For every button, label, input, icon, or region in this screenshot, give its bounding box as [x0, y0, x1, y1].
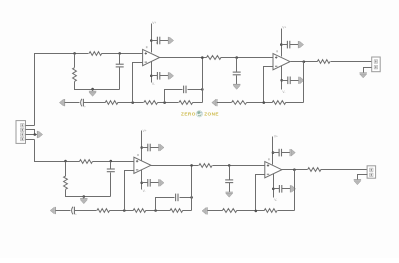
- label U1 pin8 speck: [156, 42, 158, 44]
- wire to C12: [142, 147, 148, 149]
- wire R4 to R5: [158, 102, 179, 104]
- wire U2 V- pin: [281, 66, 283, 90]
- wire C12 to ground: [151, 147, 159, 149]
- ground arrow bottom input loop: [80, 199, 87, 204]
- wire to C1 top: [119, 54, 121, 65]
- node A bottom: [64, 160, 67, 163]
- junction U1 output feedback: [201, 56, 204, 59]
- wire ground stub bottom loop: [83, 197, 85, 199]
- ground arrow U4 V-: [290, 185, 295, 192]
- label U1 V-: [152, 82, 155, 86]
- svg-text:V-: V-: [274, 198, 277, 202]
- svg-text:V-: V-: [152, 82, 155, 86]
- wire U4 output: [282, 169, 308, 171]
- svg-text:V+: V+: [143, 129, 147, 133]
- wire R3 to R4: [118, 102, 144, 104]
- resistor R4 (top feedback): [144, 101, 158, 105]
- junction U1 V+ decoupling: [150, 39, 153, 42]
- resistor R11 (bottom input shunt): [64, 176, 68, 189]
- resistor R5 (top feedback): [179, 101, 193, 105]
- wire top input loop bottom: [75, 82, 120, 90]
- junction C11-leg: [190, 196, 193, 199]
- resistor R15 (bottom coupling): [199, 164, 212, 168]
- capacitor C11 (bottom feedback parallel): [176, 194, 178, 202]
- resistor R14 (bottom feedback): [170, 209, 183, 213]
- ground arrow bottom interstage: [226, 192, 233, 197]
- junction U2 V- decoupling: [280, 79, 283, 82]
- wire feedback tap to U3 - input: [125, 171, 134, 211]
- ground arrow at J3: [354, 180, 361, 185]
- wire bottom input loop: [66, 190, 111, 197]
- ground arrow U1 V-: [168, 72, 173, 79]
- wire R16 to J3: [321, 169, 368, 171]
- ground arrow U4 V+: [290, 149, 295, 156]
- capacitor C5 (U1 V- decoupling): [157, 72, 159, 80]
- wire U4 feedback leg: [294, 170, 296, 211]
- resistor R2 (top input shunt): [73, 68, 77, 82]
- ground arrow at J1: [37, 131, 42, 138]
- node B bottom: [110, 160, 113, 163]
- wire U4 V- pin: [273, 174, 275, 198]
- wire U3 V+ pin: [141, 131, 143, 161]
- resistor R7 (top output series): [317, 60, 330, 64]
- wire to C3: [165, 90, 183, 103]
- wire R13 to R14: [146, 210, 171, 212]
- resistor R10 (bottom input series): [79, 160, 92, 164]
- junction C3-leg: [201, 88, 204, 91]
- wire C11 to output leg: [180, 197, 192, 199]
- connector J1 (input 4-pin header): [16, 121, 26, 144]
- junction U4 V+ decoupling: [272, 151, 275, 154]
- wire C9 bottom lead: [110, 173, 112, 197]
- wire to R8: [217, 102, 232, 104]
- connector J2 (top output): [372, 57, 381, 72]
- wire to C9: [110, 162, 112, 169]
- wire U2 output: [291, 61, 318, 63]
- label U4 V+: [274, 134, 278, 138]
- label U4 V-: [274, 198, 277, 202]
- wire to R17: [208, 210, 223, 212]
- op-amp U3 (bottom first stage): [134, 154, 151, 174]
- wire U1 output: [160, 57, 207, 59]
- svg-text:V-: V-: [282, 90, 285, 94]
- wire R12 to R13: [110, 210, 134, 212]
- wire C7 to ground: [290, 44, 299, 46]
- svg-text:ZERO: ZERO: [181, 111, 196, 116]
- node F bottom (stage2 tap): [255, 210, 258, 213]
- wire U4 - input to gain tap: [256, 175, 265, 211]
- capacitor C7 (U2 V+ decoupling): [287, 41, 289, 49]
- resistor R1 (top input series): [89, 52, 102, 56]
- junction bottom loop ground: [83, 195, 86, 198]
- ground arrow U1 V+: [168, 37, 173, 44]
- resistor R18 (bottom stage2 feedback): [264, 209, 277, 213]
- wire U1 V+ pin: [151, 24, 153, 53]
- node F top (stage2 tap): [263, 101, 266, 104]
- wire ground stub top loop: [92, 90, 94, 92]
- ground arrow U3 V+: [159, 144, 164, 151]
- capacitor C3 (top feedback parallel): [184, 86, 186, 94]
- wire R15 to U4 + input: [213, 165, 265, 167]
- wire U1 V- pin: [151, 62, 153, 83]
- wire to C5: [152, 75, 158, 77]
- wire C3 to output leg: [188, 89, 203, 91]
- svg-text:+: +: [75, 213, 77, 217]
- ground arrow U2 V+: [298, 41, 303, 48]
- junction U4 output feedback: [293, 168, 296, 171]
- ground arrow top stage2 gain: [212, 99, 217, 106]
- wire U4 V+ pin: [272, 137, 274, 165]
- resistor R9 (top stage2 feedback): [272, 101, 286, 105]
- capacitor C16 (U4 V- decoupling): [279, 185, 281, 193]
- junction U3 V+ decoupling: [140, 146, 143, 149]
- node A top: [73, 52, 76, 55]
- wire J3 pin2 to ground: [358, 175, 368, 180]
- wire to R2 top: [74, 54, 76, 68]
- resistor R6 (top coupling): [207, 56, 222, 60]
- capacitor C4 (U1 V+ decoupling): [157, 37, 159, 45]
- wire R17 to R18: [237, 210, 265, 212]
- wire to U1 + input: [102, 53, 143, 55]
- wire C16 to ground: [282, 188, 291, 190]
- connector J3 (bottom output): [367, 166, 376, 178]
- resistor R16 (bottom output series): [308, 168, 321, 172]
- wire C15 to ground: [282, 152, 291, 154]
- svg-text:V+: V+: [282, 26, 286, 30]
- svg-text:V-: V-: [143, 189, 146, 193]
- wire to C2: [65, 102, 80, 104]
- wire C10 to R12: [75, 210, 97, 212]
- node E top: [235, 56, 238, 59]
- wire R5 to output leg: [193, 102, 203, 104]
- wire R14 to output leg: [183, 210, 192, 212]
- resistor R8 (top stage2 gain): [232, 101, 247, 105]
- junction top loop ground: [91, 88, 94, 91]
- resistor R17 (bottom stage2 gain): [222, 209, 236, 213]
- wire C2 to R3: [84, 102, 106, 104]
- wire U3 V- pin: [141, 170, 143, 190]
- wire to C13: [142, 182, 148, 184]
- junction J1 pins 2-3: [34, 133, 37, 136]
- wire C4 to ground: [160, 40, 169, 42]
- ground arrow top gain network: [59, 99, 64, 106]
- capacitor C1 (top input shunt): [116, 64, 124, 67]
- wire top-channel input riser: [35, 54, 89, 126]
- op-amp U1 (top first stage): [143, 46, 160, 65]
- wire to C15: [273, 152, 280, 154]
- svg-text:+: +: [84, 105, 86, 109]
- wire J1 pin3 to ground: [26, 134, 38, 136]
- svg-text:V+: V+: [274, 134, 278, 138]
- wire to C4: [152, 40, 158, 42]
- wire U1 output feedback leg: [202, 58, 204, 103]
- wire U2 V+ pin: [281, 29, 283, 57]
- resistor R3 (top gain): [105, 101, 118, 105]
- junction U2 V+ decoupling: [280, 43, 283, 46]
- wire J2 pin2 to ground: [364, 68, 372, 73]
- wire to C10: [56, 210, 71, 212]
- node D top: [163, 101, 166, 104]
- wire C8 to ground: [291, 80, 299, 82]
- op-amp U4 (bottom second stage): [265, 158, 282, 178]
- wire feedback tap to U1 - input: [133, 63, 143, 103]
- label U2 V+: [282, 26, 286, 30]
- label U3 V+: [143, 129, 147, 133]
- capacitor C10 (bottom gain, polarized): [72, 207, 77, 217]
- capacitor C14 (bottom interstage shunt): [225, 180, 233, 183]
- ground arrow at J2: [360, 73, 367, 78]
- wire bottom-channel input drop: [35, 140, 80, 162]
- wire R9 to feedback leg: [286, 102, 304, 104]
- capacitor C13 (U3 V- decoupling): [148, 179, 150, 187]
- logo ZERO ZONE watermark: [181, 111, 219, 117]
- capacitor C2 (top gain, polarized): [81, 99, 86, 109]
- wire C6 to ground: [236, 76, 238, 85]
- wire R18 to feedback leg: [278, 210, 295, 212]
- wire to R11: [65, 162, 67, 177]
- capacitor C6 (top interstage shunt): [233, 72, 241, 75]
- wire C1 bottom lead: [119, 68, 121, 90]
- ground arrow top input loop: [89, 91, 96, 96]
- wire to U3 + input: [93, 161, 134, 163]
- wire to C11: [156, 198, 175, 211]
- node C top (feedback tap): [131, 101, 134, 104]
- capacitor C8 (U2 V- decoupling): [288, 77, 290, 85]
- junction U3 output feedback: [190, 164, 193, 167]
- label U2 V-: [282, 90, 285, 94]
- svg-text:ZONE: ZONE: [204, 111, 219, 116]
- wire J1 pin1 stub: [26, 125, 35, 127]
- wire to C16: [274, 188, 280, 190]
- wire to C8: [282, 80, 288, 82]
- junction U1 V- decoupling: [150, 75, 153, 78]
- ground arrow bottom stage2 gain: [202, 207, 207, 214]
- wire to C6: [236, 58, 238, 72]
- wire U3 output feedback leg: [191, 166, 193, 211]
- wire R7 to J2: [331, 61, 372, 63]
- capacitor C15 (U4 V+ decoupling): [279, 149, 281, 157]
- ground arrow bottom gain network: [50, 207, 55, 214]
- op-amp U2 (top second stage): [273, 50, 290, 70]
- wire C14 to ground: [229, 183, 231, 193]
- ground arrow top interstage: [233, 84, 240, 89]
- node B top: [118, 52, 121, 55]
- wire to C14: [229, 166, 231, 180]
- wire U2 - input to gain tap: [264, 67, 273, 103]
- label U1 V+: [152, 21, 156, 25]
- wire J1 pin4 stub: [26, 139, 35, 141]
- label U3 V-: [143, 189, 146, 193]
- node D bottom: [154, 209, 157, 212]
- wire U2 feedback leg: [303, 62, 305, 103]
- resistor R13 (bottom feedback): [133, 209, 146, 213]
- capacitor C9 (bottom input shunt): [107, 169, 115, 172]
- wire U3 output: [151, 165, 199, 167]
- junction U2 output feedback: [303, 60, 306, 63]
- wire to C7: [282, 44, 288, 46]
- svg-text:V+: V+: [152, 21, 156, 25]
- node C bottom (feedback tap): [123, 209, 126, 212]
- wire C5 to ground: [160, 75, 169, 77]
- capacitor C12 (U3 V+ decoupling): [148, 144, 150, 152]
- node E bottom: [228, 164, 231, 167]
- junction U4 V- decoupling: [272, 188, 275, 191]
- wire J1 pin2 to pin3 net: [26, 130, 35, 135]
- wire R6 to U2 + input: [221, 57, 273, 59]
- junction U3 V- decoupling: [140, 182, 143, 185]
- wire C13 to ground: [151, 182, 159, 184]
- ground arrow U2 V-: [299, 77, 304, 84]
- resistor R12 (bottom gain): [97, 209, 110, 213]
- ground arrow U3 V-: [159, 179, 164, 186]
- wire R8 to R9: [247, 102, 273, 104]
